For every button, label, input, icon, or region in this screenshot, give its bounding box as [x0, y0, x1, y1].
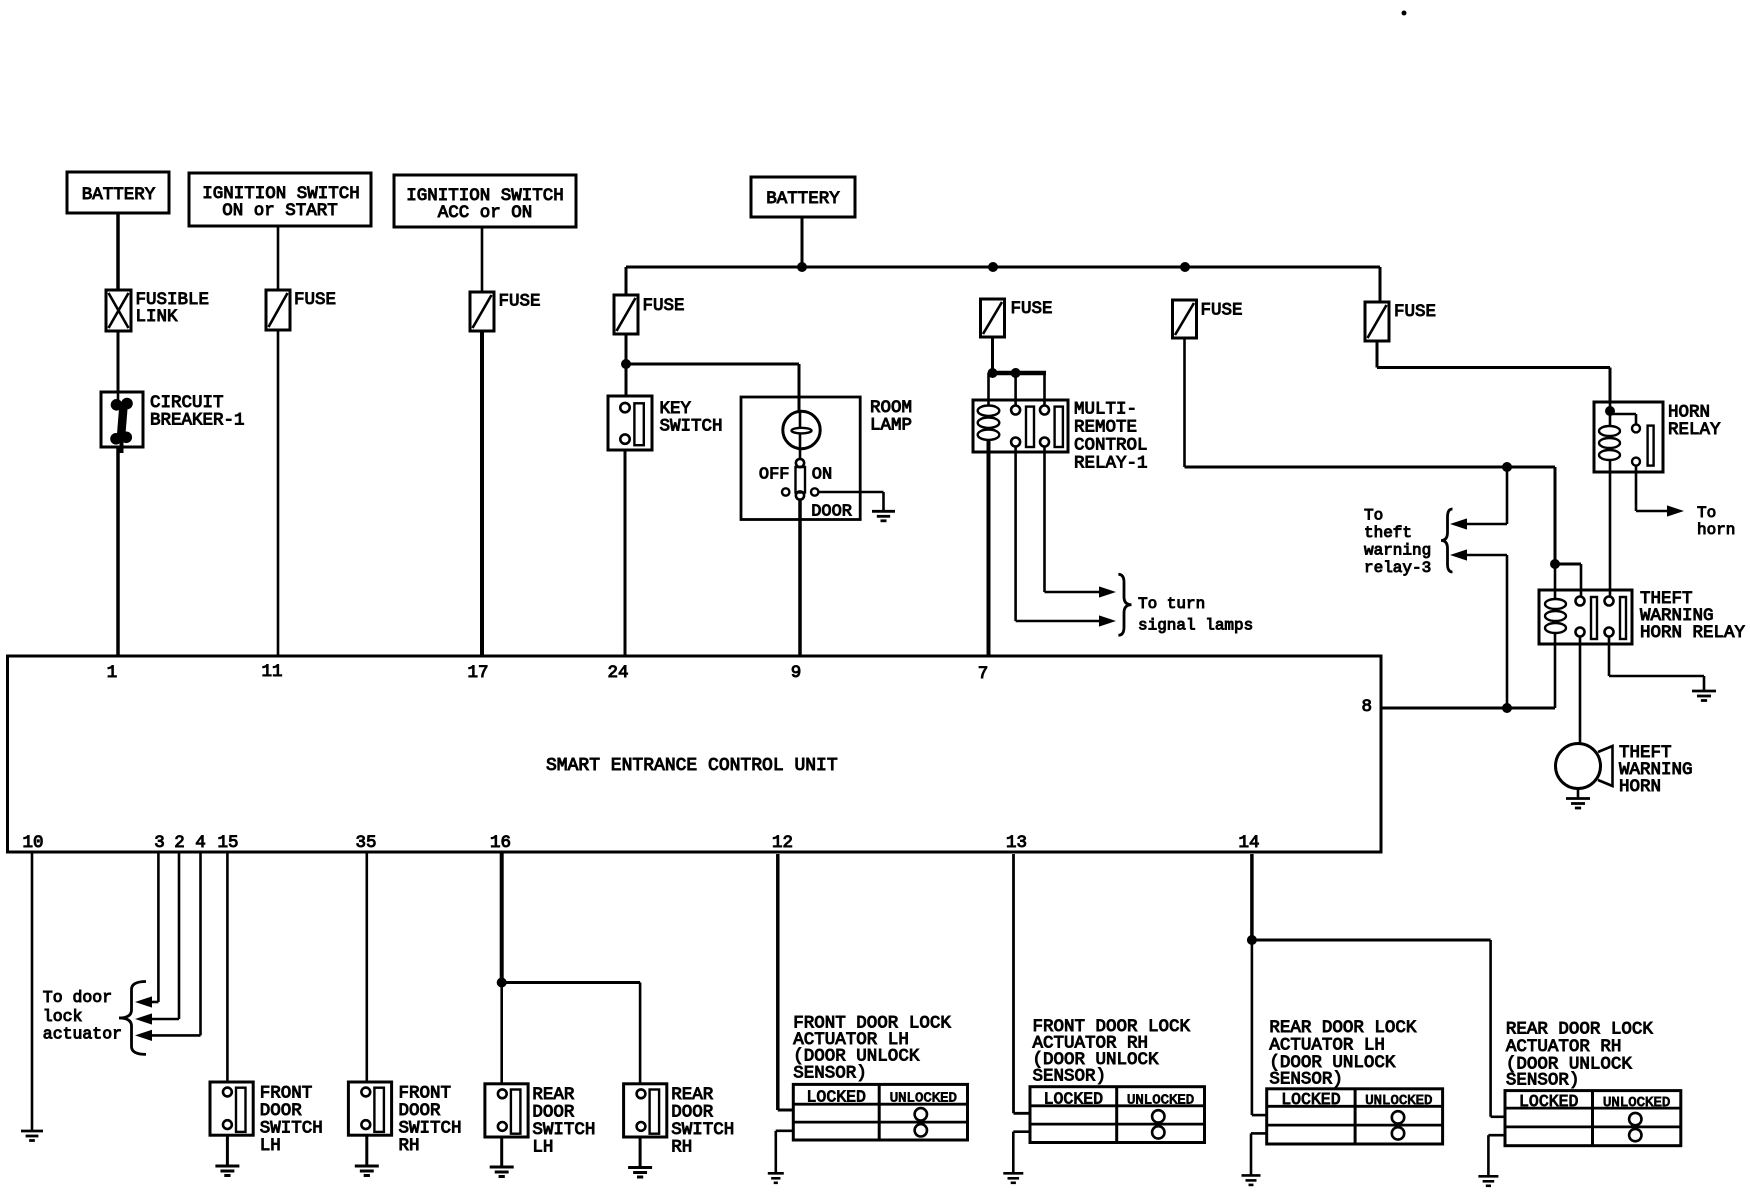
svg-text:To: To	[1364, 507, 1383, 525]
svg-text:HORN RELAY: HORN RELAY	[1640, 623, 1746, 643]
svg-text:horn: horn	[1697, 521, 1735, 539]
svg-text:2: 2	[174, 833, 185, 853]
svg-text:11: 11	[261, 662, 282, 682]
svg-text:UNLOCKED: UNLOCKED	[1603, 1095, 1670, 1111]
svg-text:3: 3	[154, 833, 165, 853]
svg-text:HORN: HORN	[1619, 777, 1661, 797]
svg-text:FUSE: FUSE	[1011, 299, 1053, 319]
svg-text:warning: warning	[1364, 542, 1431, 560]
svg-text:LOCKED: LOCKED	[807, 1088, 867, 1107]
svg-text:ON or START: ON or START	[222, 201, 338, 221]
svg-text:To: To	[1697, 504, 1716, 522]
svg-text:17: 17	[467, 663, 488, 683]
svg-text:UNLOCKED: UNLOCKED	[1127, 1093, 1194, 1109]
svg-text:RELAY: RELAY	[1668, 420, 1721, 440]
svg-text:9: 9	[791, 663, 802, 683]
svg-text:10: 10	[22, 833, 43, 853]
svg-text:LAMP: LAMP	[870, 416, 912, 436]
svg-text:RH: RH	[671, 1138, 692, 1158]
svg-text:FUSE: FUSE	[1201, 301, 1243, 321]
svg-text:FUSE: FUSE	[1394, 302, 1436, 322]
svg-text:SENSOR): SENSOR)	[1033, 1067, 1107, 1087]
svg-text:BREAKER-1: BREAKER-1	[150, 411, 245, 431]
svg-text:SENSOR): SENSOR)	[1506, 1071, 1580, 1091]
svg-text:FUSE: FUSE	[294, 290, 336, 310]
svg-text:7: 7	[978, 664, 989, 684]
svg-text:SENSOR): SENSOR)	[1269, 1070, 1343, 1090]
svg-text:12: 12	[772, 833, 793, 853]
svg-text:SWITCH: SWITCH	[660, 417, 723, 437]
svg-text:LH: LH	[260, 1136, 281, 1156]
svg-text:To turn: To turn	[1138, 595, 1205, 613]
svg-text:16: 16	[490, 833, 511, 853]
svg-text:UNLOCKED: UNLOCKED	[1365, 1093, 1432, 1109]
svg-text:ACC or ON: ACC or ON	[438, 203, 533, 223]
svg-text:BATTERY: BATTERY	[766, 189, 840, 209]
svg-text:REMOTE: REMOTE	[1074, 418, 1137, 438]
svg-text:CONTROL: CONTROL	[1074, 436, 1148, 456]
svg-text:LOCKED: LOCKED	[1281, 1090, 1341, 1109]
svg-text:LINK: LINK	[136, 307, 179, 327]
svg-text:relay-3: relay-3	[1364, 559, 1431, 577]
svg-text:8: 8	[1361, 697, 1372, 717]
svg-text:OFF: OFF	[759, 466, 790, 485]
svg-text:14: 14	[1238, 833, 1259, 853]
svg-text:RELAY-1: RELAY-1	[1074, 454, 1148, 474]
svg-text:1: 1	[107, 663, 118, 683]
svg-text:24: 24	[607, 663, 628, 683]
svg-text:FUSE: FUSE	[499, 292, 541, 312]
svg-text:SENSOR): SENSOR)	[793, 1063, 867, 1083]
svg-text:35: 35	[355, 833, 376, 853]
svg-text:To door: To door	[43, 988, 112, 1007]
svg-text:FUSE: FUSE	[643, 296, 685, 316]
svg-text:UNLOCKED: UNLOCKED	[890, 1091, 957, 1107]
svg-text:4: 4	[195, 833, 206, 853]
svg-text:theft: theft	[1364, 524, 1412, 542]
svg-text:LOCKED: LOCKED	[1044, 1090, 1104, 1109]
svg-text:15: 15	[217, 833, 238, 853]
svg-text:BATTERY: BATTERY	[82, 185, 156, 205]
svg-text:SMART ENTRANCE CONTROL UNIT: SMART ENTRANCE CONTROL UNIT	[546, 756, 838, 776]
svg-text:LH: LH	[532, 1138, 553, 1158]
svg-text:13: 13	[1006, 833, 1027, 853]
svg-text:ON: ON	[812, 466, 832, 485]
svg-text:MULTI-: MULTI-	[1074, 400, 1137, 420]
svg-text:RH: RH	[399, 1136, 420, 1156]
svg-text:DOOR: DOOR	[811, 503, 852, 522]
svg-text:lock: lock	[43, 1007, 83, 1026]
svg-text:signal lamps: signal lamps	[1138, 617, 1253, 635]
svg-text:LOCKED: LOCKED	[1519, 1092, 1579, 1111]
svg-text:actuator: actuator	[43, 1025, 122, 1044]
